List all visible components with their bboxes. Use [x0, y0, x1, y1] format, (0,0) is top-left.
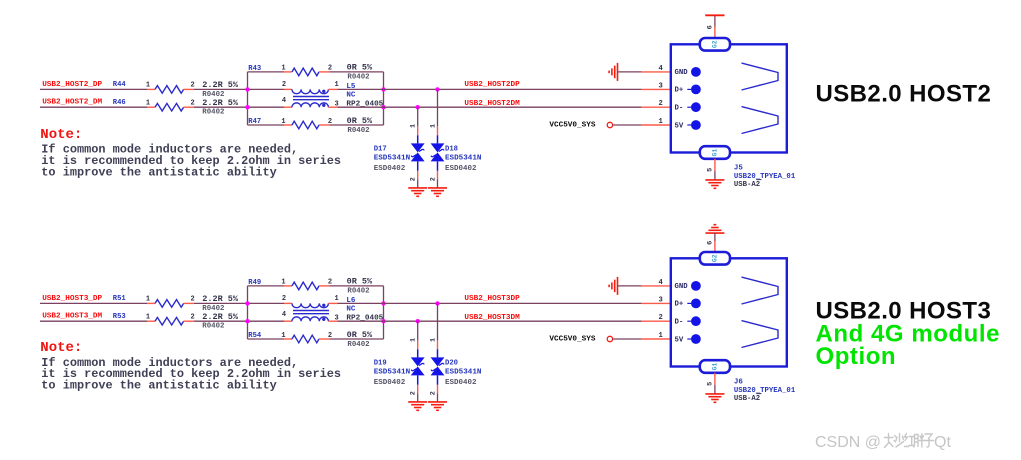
inductor L6 bottom winding — [292, 317, 328, 321]
wire top bypass right segment — [329, 285, 383, 287]
svg-text:R0402: R0402 — [347, 341, 369, 349]
inductor L5 top polarity dot — [322, 90, 325, 93]
svg-text:1: 1 — [429, 124, 437, 128]
ground under J6 — [705, 394, 724, 402]
diode D18 cathode lead — [437, 161, 439, 170]
wire DM from choke to connector pin 2 — [338, 320, 642, 322]
connector J6 pin 4 stub — [642, 285, 671, 287]
diode D19 pin 1 stub — [417, 340, 419, 349]
svg-text:5: 5 — [706, 168, 714, 172]
svg-text:NC: NC — [346, 305, 356, 313]
resistor R53 — [147, 317, 194, 325]
svg-text:USB20_TPYEA_01: USB20_TPYEA_01 — [734, 173, 796, 181]
wire J6 pin 1 — [613, 338, 642, 340]
svg-text:GND: GND — [675, 69, 689, 77]
junction left on DP — [245, 87, 249, 91]
svg-text:1: 1 — [146, 314, 150, 322]
svg-text:CSDN @: CSDN @ — [815, 434, 881, 451]
wire top bypass left segment — [248, 285, 285, 287]
svg-text:2.2R 5%: 2.2R 5% — [202, 80, 239, 90]
svg-text:R47: R47 — [248, 118, 261, 126]
diode D20 pin 1 stub — [437, 340, 439, 349]
svg-text:5V: 5V — [675, 122, 684, 130]
connector J6 receptacle contact lower — [742, 321, 779, 348]
diode D20 cathode lead — [437, 375, 439, 384]
inductor L6 top winding — [292, 303, 328, 307]
wire right bypass vertical — [383, 72, 385, 125]
svg-text:R46: R46 — [113, 99, 126, 107]
connector J6 shield tab G1 — [700, 360, 730, 373]
diode D20 anode lead — [437, 349, 439, 357]
svg-text:G1: G1 — [711, 149, 718, 157]
svg-text:2: 2 — [410, 391, 418, 395]
inductor L6 core line lower — [293, 313, 329, 315]
svg-text:4: 4 — [282, 311, 286, 319]
connector J6 pin 1 stub — [642, 338, 671, 340]
inductor L5 pin 2 stub — [284, 88, 292, 90]
svg-text:6: 6 — [706, 25, 714, 29]
resistor R49 — [284, 282, 329, 290]
svg-text:1: 1 — [410, 338, 418, 342]
inductor L5 top winding — [292, 89, 328, 93]
svg-text:D17: D17 — [374, 146, 387, 154]
svg-text:ESD5341N: ESD5341N — [445, 155, 482, 163]
svg-text:USB2_HOST3DM: USB2_HOST3DM — [464, 314, 520, 322]
svg-text:R53: R53 — [113, 313, 126, 321]
svg-text:VCC5V0_SYS: VCC5V0_SYS — [549, 336, 596, 344]
svg-text:0R 5%: 0R 5% — [347, 330, 373, 340]
diode D18 pin 2 stub — [437, 171, 439, 180]
inductor L6 core line upper — [293, 310, 329, 312]
connector J5 receptacle contact upper — [742, 63, 779, 90]
svg-text:ESD5341N: ESD5341N — [374, 369, 411, 377]
connector J5 pin name D+ and contact dot — [675, 85, 701, 95]
connector J5 body — [671, 44, 787, 152]
inductor L6 pin 2 stub — [284, 302, 292, 304]
svg-text:0R 5%: 0R 5% — [347, 63, 373, 73]
svg-text:R0402: R0402 — [347, 288, 369, 296]
svg-text:R51: R51 — [113, 295, 127, 303]
diode D19 wire from DM — [417, 321, 419, 340]
connector J6 pin name GND and contact dot — [675, 281, 701, 291]
svg-text:Note:: Note: — [40, 340, 82, 356]
svg-text:3: 3 — [658, 82, 662, 90]
wire USB2_HOST3_DP segment from label to R51 — [40, 302, 147, 304]
ground under D18 — [428, 188, 447, 196]
diode D19 wire to ground — [417, 394, 419, 402]
diode D18 junction on DP — [435, 87, 439, 91]
diode D19 — [411, 357, 425, 375]
resistor R43 — [284, 68, 329, 76]
diode D19 pin 2 stub — [417, 385, 419, 394]
wire USB2_HOST2_DM segment from label to R46 — [40, 106, 147, 108]
inductor L5 core line lower — [293, 99, 329, 101]
wire DP from choke to connector pin 3 — [338, 88, 642, 90]
ground above J6 pin 6 — [705, 225, 724, 233]
svg-text:1: 1 — [658, 118, 663, 126]
svg-text:to improve the antistatic abil: to improve the antistatic ability — [41, 379, 276, 393]
svg-text:USB-A2: USB-A2 — [734, 395, 760, 403]
connector J5 pin 6 termination bar — [705, 14, 724, 16]
svg-text:USB2_HOST2_DM: USB2_HOST2_DM — [42, 99, 102, 107]
connector J5 pin 5 stub — [714, 159, 716, 171]
diode D18 anode lead — [437, 135, 439, 143]
connector J5 shield tab G2 — [700, 38, 730, 51]
inductor L5 bottom winding — [292, 103, 328, 107]
wire USB2_HOST3_DM segment from label to R53 — [40, 320, 147, 322]
diode D20 — [431, 357, 445, 375]
svg-text:ESD0402: ESD0402 — [445, 165, 477, 173]
diode D17 wire from DM — [417, 107, 419, 126]
svg-text:5V: 5V — [675, 336, 684, 344]
svg-text:D+: D+ — [675, 87, 684, 95]
diode D18 wire from DP — [437, 89, 439, 126]
svg-text:R54: R54 — [248, 332, 262, 340]
svg-text:2: 2 — [410, 177, 418, 181]
svg-text:D18: D18 — [445, 146, 458, 154]
watermark CSDN @changsha hongpangzi Qt — [815, 434, 951, 452]
svg-text:2.2R 5%: 2.2R 5% — [202, 294, 239, 304]
inductor L6 pin 1 stub — [328, 302, 337, 304]
ground under D17 — [408, 188, 427, 196]
svg-text:USB2_HOST2DP: USB2_HOST2DP — [464, 81, 520, 89]
diode D17 — [411, 143, 425, 161]
wire top bypass left segment — [248, 71, 285, 73]
connector J5 pin name D- and contact dot — [675, 102, 701, 112]
VCC5V0_SYS port circle — [607, 336, 612, 341]
junction right on DM — [381, 105, 385, 109]
connector J6 pin 5 stub — [714, 373, 716, 385]
ground at J6 pin 4 — [609, 277, 617, 295]
svg-text:1: 1 — [146, 100, 150, 108]
wire top bypass right segment — [329, 71, 383, 73]
svg-text:R49: R49 — [248, 279, 261, 287]
svg-text:USB2_HOST2DM: USB2_HOST2DM — [464, 100, 520, 108]
svg-text:R0402: R0402 — [347, 127, 369, 135]
svg-text:VCC5V0_SYS: VCC5V0_SYS — [549, 122, 596, 130]
svg-text:1: 1 — [334, 295, 338, 303]
svg-text:D+: D+ — [675, 301, 684, 309]
ground under D19 — [408, 402, 427, 410]
wire J5 pin 4 — [618, 71, 642, 73]
junction left on DP — [245, 301, 249, 305]
diode D18 wire to ground — [437, 180, 439, 188]
svg-text:USB2_HOST3_DP: USB2_HOST3_DP — [42, 295, 102, 303]
svg-text:G2: G2 — [711, 254, 718, 262]
svg-text:USB-A2: USB-A2 — [734, 181, 760, 189]
svg-text:5: 5 — [706, 382, 714, 386]
svg-text:1: 1 — [146, 82, 150, 90]
svg-text:NC: NC — [346, 91, 356, 99]
svg-text:2: 2 — [190, 296, 194, 304]
ground under D20 — [428, 402, 447, 410]
svg-text:D-: D- — [675, 319, 684, 327]
svg-text:USB2_HOST2_DP: USB2_HOST2_DP — [42, 81, 102, 89]
svg-text:ESD5341N: ESD5341N — [445, 369, 482, 377]
svg-text:2.2R 5%: 2.2R 5% — [202, 312, 239, 322]
inductor L6 top polarity dot — [322, 304, 325, 307]
svg-text:ESD5341N: ESD5341N — [374, 155, 411, 163]
connector J6 footprint USB-A2 — [734, 394, 762, 403]
svg-text:G2: G2 — [711, 40, 718, 48]
connector J5 pin 4 stub — [642, 71, 671, 73]
svg-text:R44: R44 — [113, 81, 127, 89]
connector J6 pin 6 wire — [714, 233, 716, 241]
svg-text:0R 5%: 0R 5% — [347, 116, 373, 126]
resistor R47 — [284, 121, 329, 129]
inductor L5 pin 4 stub — [284, 106, 292, 108]
svg-text:4: 4 — [658, 279, 663, 287]
diode D17 wire to ground — [417, 180, 419, 188]
wire DP from choke to connector pin 3 — [338, 302, 642, 304]
VCC5V0_SYS port circle — [607, 122, 612, 127]
svg-text:2.2R 5%: 2.2R 5% — [202, 98, 239, 108]
connector J5 shield tab G1 — [700, 146, 730, 159]
svg-text:ESD0402: ESD0402 — [374, 379, 406, 387]
svg-text:2: 2 — [658, 314, 662, 322]
inductor L5 core line upper — [293, 96, 329, 98]
connector J6 pin 2 stub — [642, 320, 671, 322]
svg-text:J6: J6 — [734, 378, 744, 386]
connector J5 footprint USB-A2 — [734, 180, 762, 189]
wire DM from R46 to choke — [194, 106, 284, 108]
resistor R46 — [147, 103, 194, 111]
connector J6 pin 3 stub — [642, 302, 671, 304]
connector J5 pin 2 stub — [642, 106, 671, 108]
svg-text:USB2_HOST3_DM: USB2_HOST3_DM — [42, 313, 102, 321]
inductor L5 pin 3 stub — [328, 106, 337, 108]
wire bottom bypass left segment — [248, 124, 285, 126]
ground at J5 pin 4 — [609, 63, 617, 81]
connector J6 pin 6 stub — [714, 241, 716, 252]
inductor L5 bottom polarity dot — [322, 104, 325, 107]
diode D17 anode lead — [417, 135, 419, 143]
svg-text:USB20_TPYEA_01: USB20_TPYEA_01 — [734, 387, 796, 395]
connector J5 pin 6 wire — [714, 16, 716, 27]
inductor L5 pin 1 stub — [328, 88, 337, 90]
diode D17 pin 1 stub — [417, 126, 419, 135]
svg-text:1: 1 — [334, 81, 338, 89]
svg-text:2: 2 — [429, 391, 437, 395]
svg-text:Qt: Qt — [934, 434, 951, 451]
connector J6 pin name D+ and contact dot — [675, 299, 701, 309]
svg-text:D19: D19 — [374, 360, 387, 368]
svg-text:1: 1 — [410, 124, 418, 128]
svg-text:0R 5%: 0R 5% — [347, 277, 373, 287]
svg-text:4: 4 — [282, 97, 286, 105]
connector J6 pin name D- and contact dot — [675, 316, 701, 326]
wire J6 pin 4 — [618, 285, 642, 287]
resistor R51 — [147, 300, 194, 308]
svg-text:4: 4 — [658, 65, 663, 73]
svg-text:2: 2 — [190, 100, 194, 108]
wire left bypass vertical — [247, 286, 249, 339]
diode D19 junction on DM — [416, 319, 420, 323]
connector J5 pin name GND and contact dot — [675, 67, 701, 77]
junction right on DP — [381, 87, 385, 91]
diode D20 wire to ground — [437, 394, 439, 402]
svg-text:R0402: R0402 — [347, 74, 369, 82]
svg-text:1: 1 — [146, 296, 150, 304]
svg-text:R43: R43 — [248, 65, 261, 73]
connector J6 shield tab G2 — [700, 252, 730, 265]
svg-text:3: 3 — [658, 296, 662, 304]
svg-text:ESD0402: ESD0402 — [374, 165, 406, 173]
diode D17 cathode lead — [417, 161, 419, 170]
connector J5 pin name 5V and contact dot — [675, 120, 701, 130]
junction right on DP — [381, 301, 385, 305]
connector J6 body — [671, 258, 787, 366]
svg-text:D-: D- — [675, 105, 684, 113]
diode D19 cathode lead — [417, 375, 419, 384]
svg-text:2: 2 — [282, 295, 286, 303]
connector J6 pin name 5V and contact dot — [675, 334, 701, 344]
diode D17 pin 2 stub — [417, 171, 419, 180]
junction left on DM — [245, 319, 249, 323]
svg-text:USB2_HOST3DP: USB2_HOST3DP — [464, 295, 520, 303]
inductor L6 pin 3 stub — [328, 320, 337, 322]
connector J6 receptacle contact upper — [742, 277, 779, 304]
wire bottom bypass right segment — [329, 124, 383, 126]
ground under J5 — [705, 180, 724, 188]
svg-text:2: 2 — [282, 81, 286, 89]
wire USB2_HOST2_DP segment from label to R44 — [40, 88, 147, 90]
wire DP from R51 to choke — [194, 302, 284, 304]
connector J5 pin 1 stub — [642, 124, 671, 126]
svg-text:2: 2 — [190, 82, 194, 90]
diode D17 junction on DM — [416, 105, 420, 109]
inductor L6 pin 4 stub — [284, 320, 292, 322]
resistor R44 — [147, 86, 194, 94]
diode D20 junction on DP — [435, 301, 439, 305]
svg-text:D20: D20 — [445, 360, 458, 368]
junction right on DM — [381, 319, 385, 323]
junction left on DM — [245, 105, 249, 109]
connector J6 pin 5 wire — [714, 385, 716, 394]
svg-text:2: 2 — [658, 100, 662, 108]
svg-text:1: 1 — [658, 332, 663, 340]
connector J5 pin 3 stub — [642, 88, 671, 90]
diode D20 pin 2 stub — [437, 385, 439, 394]
wire DM from choke to connector pin 2 — [338, 106, 642, 108]
wire bottom bypass right segment — [329, 338, 383, 340]
inductor L6 bottom polarity dot — [322, 318, 325, 321]
resistor R54 — [284, 335, 329, 343]
connector J5 pin 6 stub — [714, 27, 716, 39]
svg-text:1: 1 — [429, 338, 437, 342]
svg-text:2: 2 — [190, 314, 194, 322]
svg-text:to improve the antistatic abil: to improve the antistatic ability — [41, 165, 276, 179]
wire J5 pin 1 — [613, 124, 642, 126]
svg-text:USB2.0 HOST2: USB2.0 HOST2 — [816, 81, 992, 108]
svg-text:GND: GND — [675, 283, 689, 291]
svg-text:J5: J5 — [734, 164, 744, 172]
connector J5 receptacle contact lower — [742, 107, 779, 134]
svg-text:2: 2 — [429, 177, 437, 181]
wire left bypass vertical — [247, 72, 249, 125]
connector J5 pin 5 wire — [714, 171, 716, 180]
diode D20 wire from DP — [437, 303, 439, 340]
svg-text:R0402: R0402 — [202, 323, 224, 331]
svg-text:R0402: R0402 — [202, 109, 224, 117]
svg-text:G1: G1 — [711, 363, 718, 371]
diode D18 pin 1 stub — [437, 126, 439, 135]
wire right bypass vertical — [383, 286, 385, 339]
wire bottom bypass left segment — [248, 338, 285, 340]
diode D18 — [431, 143, 445, 161]
svg-text:Note:: Note: — [40, 127, 82, 143]
wire DM from R53 to choke — [194, 320, 284, 322]
svg-text:Option: Option — [816, 343, 897, 370]
svg-text:ESD0402: ESD0402 — [445, 379, 477, 387]
diode D19 anode lead — [417, 349, 419, 357]
wire DP from R44 to choke — [194, 88, 284, 90]
svg-text:6: 6 — [706, 241, 714, 245]
